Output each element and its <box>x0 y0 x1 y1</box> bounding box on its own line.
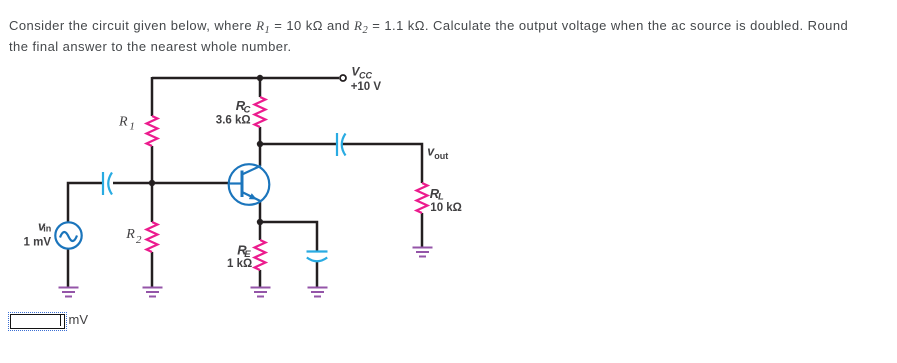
ac source Vin <box>55 222 81 248</box>
label RE / 1 kOhm <box>227 242 252 270</box>
resistor R1 <box>147 116 158 146</box>
transistor Q1 <box>229 164 270 205</box>
node at base/R1/R2 junction <box>149 180 155 186</box>
ground below R2 <box>143 288 163 297</box>
node at collector/output junction <box>257 141 263 147</box>
wire emitter node to RE <box>259 222 262 240</box>
svg-text:2: 2 <box>136 234 142 246</box>
wire emitter node to bypass cap branch <box>260 222 317 251</box>
wire top rail Vcc <box>152 77 339 80</box>
wire R1 bottom lead to base node <box>151 146 154 183</box>
capacitor C1 input coupling <box>103 172 112 195</box>
resistor R2 <box>147 222 158 252</box>
svg-text:1 kΩ: 1 kΩ <box>227 258 252 270</box>
wire collector node to output cap <box>260 143 336 146</box>
label Vcc <box>351 64 382 93</box>
wire emitter to emitter node <box>259 201 262 222</box>
svg-text:R: R <box>118 114 128 129</box>
wire RE bottom to ground <box>259 270 262 287</box>
node at rail/RC junction <box>257 75 263 81</box>
svg-text:in: in <box>43 224 51 234</box>
label vin / 1 mV <box>24 219 52 248</box>
wire base: coupling cap to transistor base <box>113 182 229 185</box>
wire base node to R2 top <box>151 183 154 222</box>
svg-text:L: L <box>438 191 444 202</box>
svg-text:CC: CC <box>359 71 372 81</box>
capacitor CE bypass <box>307 252 328 262</box>
wire RC top lead from rail <box>259 78 262 97</box>
ground below CE <box>308 288 328 297</box>
node at emitter/RE/CE junction <box>257 219 263 225</box>
ground below RE <box>251 288 271 297</box>
question text <box>9 15 897 57</box>
capacitor C2 output coupling <box>337 133 346 156</box>
answer input box with mV unit <box>0 0 897 1</box>
label R2 <box>125 227 142 246</box>
label RC / 3.6 kOhm <box>216 98 251 127</box>
wire RC bottom to collector node <box>259 127 262 166</box>
resistor RC <box>255 97 266 127</box>
resistor RL <box>417 183 428 213</box>
wire R2 bottom lead to ground <box>151 252 154 287</box>
ground below RL <box>413 248 433 257</box>
label R1 <box>118 114 135 132</box>
svg-text:+10 V: +10 V <box>351 81 382 93</box>
ground below source <box>59 288 79 297</box>
wire input: source to coupling cap <box>68 183 103 223</box>
wire R1 top lead <box>151 77 154 116</box>
label vout <box>427 145 448 161</box>
Vcc terminal circle <box>340 75 346 81</box>
svg-text:1 mV: 1 mV <box>24 237 52 249</box>
svg-text:1: 1 <box>129 121 135 133</box>
wire output cap to Vout corner and down to RL <box>342 144 422 183</box>
wire source bottom to ground <box>67 249 70 287</box>
svg-text:out: out <box>434 151 448 161</box>
svg-text:R: R <box>125 227 135 242</box>
wire bypass cap to ground <box>316 262 319 287</box>
resistor RE <box>255 240 266 270</box>
svg-text:3.6 kΩ: 3.6 kΩ <box>216 114 251 126</box>
wire RL bottom lead to ground <box>421 213 424 247</box>
svg-text:10 kΩ: 10 kΩ <box>430 202 462 214</box>
label RL / 10 kOhm <box>430 186 462 214</box>
